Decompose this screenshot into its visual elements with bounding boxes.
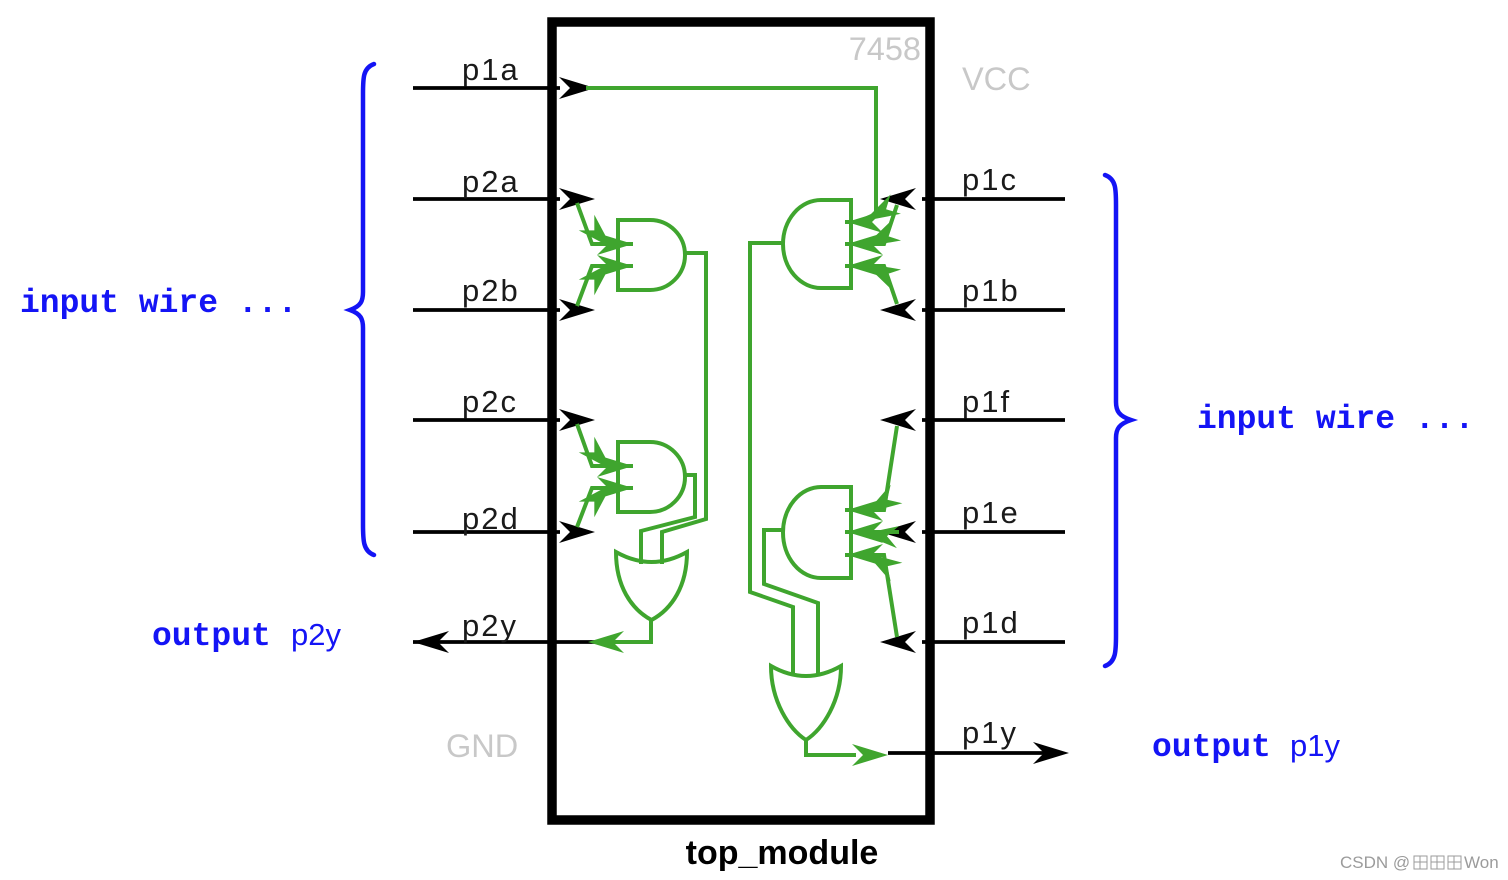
svg-text:p2c: p2c (462, 384, 518, 419)
right brace (inputs group) (1105, 175, 1131, 666)
wire net p1e from pin to U4 input 2 (845, 530, 899, 534)
chip outline top_module (552, 22, 930, 820)
svg-text:p1e: p1e (962, 495, 1020, 530)
wire net p1a from pin to U3 input 1 (586, 88, 876, 222)
and-gate U1 upper-left (p2a,p2b) (618, 220, 685, 290)
svg-text:p1y: p1y (962, 715, 1018, 750)
wire U1 output to U5 input 2 (662, 253, 706, 564)
svg-text:GND: GND (446, 728, 518, 764)
and-gate U2 lower-left (p2c,p2d) (618, 442, 685, 512)
pin p1d (input, row 6 right) (880, 605, 1065, 653)
wire U5 output to pin p2y (600, 618, 651, 642)
and-gate U3 upper-right (p1a,p1c,p1b) mirrored (783, 200, 851, 288)
svg-text:p1c: p1c (962, 162, 1018, 197)
pin p2a (input, row 2) (413, 164, 595, 210)
and-gate U4 lower-right (p1f,p1e,p1d) mirrored (783, 487, 851, 578)
svg-text:CSDN @: CSDN @ (1340, 853, 1410, 872)
svg-text:top_module: top_module (686, 834, 879, 872)
pin p2b (input, row 3) (413, 273, 595, 321)
wire net p1c from pin to U3 input 2 (845, 205, 897, 244)
wire net p2b from pin to U1 input 2 (577, 266, 633, 306)
pin p2d (input, row 5) (413, 501, 595, 543)
svg-text:p1f: p1f (962, 384, 1011, 419)
svg-text:7458: 7458 (849, 31, 921, 67)
svg-text:VCC: VCC (962, 61, 1031, 97)
wire net p2c from pin to U2 input 1 (577, 424, 633, 466)
pin p1b (input, row 3 right) (880, 273, 1065, 321)
svg-text:p2a: p2a (462, 164, 520, 199)
wire U4 output to U6 input 2 (764, 530, 818, 676)
svg-text:p2d: p2d (462, 501, 520, 536)
pin p1y (output, row 7 right) (888, 715, 1069, 764)
or-gate U6 right (output p1y) pointing down (771, 666, 841, 740)
svg-text:input wire ...: input wire ... (1197, 401, 1474, 438)
svg-text:input wire ...: input wire ... (20, 285, 297, 322)
svg-text:Won: Won (1464, 853, 1499, 872)
svg-text:p1b: p1b (962, 273, 1020, 308)
svg-text:p1y: p1y (1290, 728, 1340, 763)
pin p1a (input, row 1) (413, 52, 595, 99)
pin p1c (input, row 2 right) (880, 162, 1065, 210)
pin p1f (input, row 4 right) (880, 384, 1065, 431)
svg-text:output: output (152, 618, 271, 655)
svg-text:p1a: p1a (462, 52, 520, 87)
wire net p2d from pin to U2 input 2 (577, 488, 633, 527)
wire net p2a from pin to U1 input 1 (577, 203, 633, 244)
svg-text:p2y: p2y (291, 617, 341, 652)
left brace (inputs group) (350, 64, 374, 555)
pin p2c (input, row 4) (413, 384, 595, 431)
wire U2 output to U5 input 1 (641, 475, 695, 564)
wire net p1f from pin to U4 input 1 (845, 426, 897, 510)
pin p1e (input, row 5 right) (880, 495, 1065, 543)
wire U6 output to pin p1y (806, 738, 856, 755)
wire U3 output to U6 input 1 (750, 243, 793, 676)
watermark CSDN @圆喵喵Won (1340, 853, 1499, 872)
svg-text:p2b: p2b (462, 273, 520, 308)
svg-text:p2y: p2y (462, 608, 518, 643)
wire net p1d from pin to U4 input 3 (845, 555, 897, 637)
or-gate U5 left (output p2y) pointing down (616, 552, 687, 620)
svg-text:p1d: p1d (962, 605, 1020, 640)
wire net p1b from pin to U3 input 3 (845, 266, 897, 304)
pin p2y (output, row 6) (413, 608, 598, 653)
svg-text:output: output (1152, 729, 1271, 766)
